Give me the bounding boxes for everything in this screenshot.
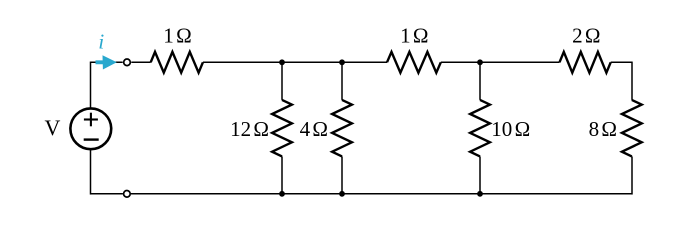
svg-text:10Ω: 10Ω [491, 117, 530, 141]
svg-text:V: V [45, 115, 61, 140]
svg-text:4Ω: 4Ω [300, 117, 328, 141]
svg-text:8Ω: 8Ω [589, 117, 617, 141]
svg-text:i: i [98, 29, 104, 53]
svg-text:1Ω: 1Ω [400, 23, 428, 47]
svg-text:12Ω: 12Ω [230, 117, 269, 141]
svg-text:1Ω: 1Ω [163, 23, 191, 47]
svg-text:2Ω: 2Ω [572, 23, 600, 47]
